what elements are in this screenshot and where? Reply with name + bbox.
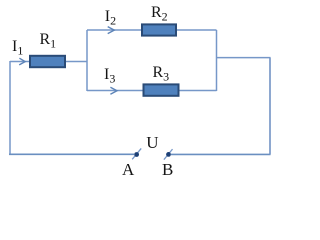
resistor R1 (30, 56, 65, 67)
svg-text:A: A (122, 160, 135, 179)
svg-text:R2: R2 (151, 4, 168, 24)
svg-text:I3: I3 (104, 66, 115, 86)
wire: parallel block left vertical (86, 30, 88, 91)
resistor R2 (142, 24, 176, 35)
wire: bottom rail right segment from terminal B (171, 153, 271, 155)
svg-text:R1: R1 (40, 31, 57, 51)
wire: output connector (217, 57, 271, 59)
svg-text:I2: I2 (105, 8, 116, 28)
tick through terminal A (132, 148, 141, 159)
arrow I3 (chevron on middle branch) (110, 87, 117, 94)
wire: right vertical rail (269, 58, 271, 155)
terminal dot B (166, 152, 171, 157)
svg-text:I1: I1 (12, 38, 23, 58)
wire: left input horizontal (10, 61, 87, 63)
terminal dot A (134, 152, 139, 157)
tick through terminal B (164, 149, 173, 160)
wire: middle branch (87, 90, 217, 92)
wire: top branch (87, 29, 217, 31)
svg-text:U: U (146, 133, 158, 152)
resistor R3 (144, 84, 179, 95)
svg-text:R3: R3 (153, 64, 170, 84)
arrow I2 (chevron on top branch) (108, 27, 115, 34)
wire: parallel block right vertical (216, 30, 218, 91)
wire: bottom rail left segment to terminal A (9, 153, 134, 155)
arrow I1 (chevron on input wire) (19, 58, 25, 65)
svg-text:B: B (162, 160, 173, 179)
wire: left vertical rail (9, 61, 11, 154)
